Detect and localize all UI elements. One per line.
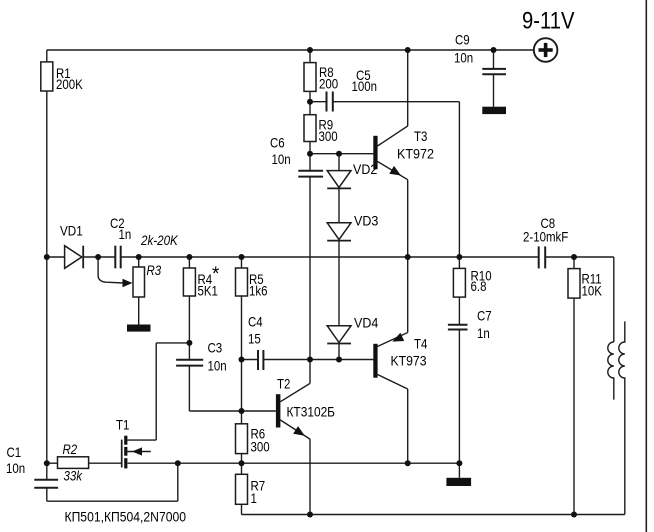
power terminal +9-11V: [522, 8, 575, 62]
node R5 top: [239, 254, 245, 260]
svg-text:10n: 10n: [6, 460, 25, 476]
svg-text:VD4: VD4: [354, 315, 378, 331]
capacitor C6: [270, 135, 323, 177]
diode VD1: [60, 223, 83, 269]
capacitor C8: [523, 215, 568, 268]
resistor R1: [41, 62, 84, 92]
resistor R8: [304, 63, 338, 92]
svg-text:33k: 33k: [64, 468, 83, 484]
ground under R3: [127, 325, 151, 332]
resistor R4: [183, 257, 220, 359]
svg-text:300: 300: [319, 128, 338, 144]
ground under C9: [482, 107, 506, 114]
svg-text:10n: 10n: [272, 151, 291, 167]
svg-text:2-10mkF: 2-10mkF: [523, 229, 568, 245]
svg-text:R3: R3: [147, 262, 162, 278]
svg-text:КП501,КП504,2N7000: КП501,КП504,2N7000: [65, 509, 187, 525]
svg-text:T2: T2: [277, 376, 291, 392]
node R4 top: [186, 254, 192, 260]
wire R8-R9-C6 column: [309, 50, 311, 170]
svg-text:10n: 10n: [454, 50, 473, 66]
wire mid rail left of VD1: [47, 256, 65, 258]
node bootstrap mid rail: [456, 254, 462, 260]
wire C4 to T4 base: [264, 359, 374, 361]
wire VD1 to C2: [83, 256, 115, 258]
svg-text:КТ3102Б: КТ3102Б: [287, 404, 336, 420]
diode VD2: [327, 161, 377, 188]
capacitor C2: [110, 215, 131, 268]
resistor R11: [568, 257, 602, 515]
svg-text:1k6: 1k6: [249, 283, 268, 299]
wire mid rail: [121, 256, 538, 258]
capacitor C5: [310, 67, 377, 112]
wire C6 bottom long lead: [309, 178, 311, 360]
resistor R7: [236, 463, 266, 514]
resistor R6: [236, 411, 270, 463]
wire VD3-VD4: [338, 241, 340, 326]
svg-text:1n: 1n: [119, 226, 132, 242]
wire T3 base: [310, 153, 373, 155]
node C1-R2: [44, 460, 50, 466]
label 2k-20K: [140, 232, 178, 248]
transistor T3: [373, 50, 434, 257]
transistor T4: [373, 257, 427, 463]
node R6 top: [239, 408, 245, 414]
ground under C7 node: [446, 478, 471, 486]
node T1 source: [175, 460, 181, 466]
resistor R10: [453, 268, 491, 298]
svg-text:9-11V: 9-11V: [522, 8, 575, 35]
capacitor C3: [176, 340, 227, 374]
node T2 emitter ground rail: [307, 512, 313, 518]
node R5-C4: [239, 357, 245, 363]
wire top rail: [47, 49, 534, 51]
capacitor C1: [6, 444, 58, 501]
node C8-R11: [571, 254, 577, 260]
svg-text:300: 300: [251, 439, 270, 455]
svg-text:1: 1: [251, 490, 258, 506]
wire VD2-VD3: [338, 188, 340, 222]
node C2-R3: [136, 254, 142, 260]
svg-text:VD3: VD3: [354, 213, 378, 229]
node mid rail left: [44, 254, 50, 260]
inductor L secondary winding: [619, 321, 625, 514]
svg-text:T4: T4: [414, 336, 428, 352]
resistor R9: [304, 115, 338, 144]
resistor R5: [236, 257, 268, 411]
node emitters mid rail: [405, 254, 411, 260]
wire C8 to coil: [546, 257, 614, 342]
node T4 collector rail: [405, 460, 411, 466]
svg-text:KT973: KT973: [391, 353, 427, 369]
svg-text:10K: 10K: [582, 283, 603, 299]
svg-text:15: 15: [248, 331, 261, 347]
inductor L primary winding: [608, 342, 614, 400]
svg-text:C3: C3: [208, 340, 223, 356]
node top rail T3 collector: [405, 47, 411, 53]
svg-text:100n: 100n: [352, 78, 378, 94]
potentiometer R3: [98, 257, 161, 325]
node top rail C9: [491, 47, 497, 53]
svg-text:6.8: 6.8: [471, 278, 487, 294]
resistor R2: [58, 441, 89, 484]
label transistor types: [65, 509, 187, 525]
svg-text:C6: C6: [270, 135, 285, 151]
node R8-R9 C5 tap: [307, 99, 313, 105]
svg-text:10n: 10n: [208, 358, 227, 374]
svg-text:VD1: VD1: [60, 223, 83, 239]
svg-text:C9: C9: [455, 32, 470, 48]
node VD1-C2: [95, 254, 101, 260]
wire C1 bottom loop: [47, 463, 178, 501]
border frame right edge: [645, 0, 647, 532]
svg-text:C1: C1: [7, 444, 22, 460]
svg-text:200: 200: [319, 76, 338, 92]
wire diode chain column top: [338, 154, 340, 171]
node top rail R8: [307, 47, 313, 53]
svg-text:T3: T3: [414, 128, 428, 144]
svg-text:R2: R2: [63, 441, 78, 457]
wire VD4 bottom: [338, 344, 340, 360]
svg-text:200K: 200K: [56, 76, 83, 92]
capacitor C4: [242, 314, 264, 371]
svg-text:1n: 1n: [477, 325, 490, 341]
node C6 bottom: [307, 357, 313, 363]
capacitor C7: [448, 308, 492, 478]
diode VD3: [327, 213, 378, 241]
svg-text:VD2: VD2: [353, 161, 377, 177]
wire left rail: [46, 50, 48, 463]
node VD4 bottom: [336, 357, 342, 363]
node R9 bottom: [307, 151, 313, 157]
svg-text:KT972: KT972: [397, 146, 434, 162]
svg-text:5K1: 5K1: [198, 283, 219, 299]
svg-text:2k-20K: 2k-20K: [140, 232, 178, 248]
node C7 ground: [456, 460, 462, 466]
node VD2 top: [336, 151, 342, 157]
svg-text:T1: T1: [116, 417, 130, 433]
node R6-R7: [239, 460, 245, 466]
wire ground rail bottom: [242, 514, 625, 516]
wire C5 to bootstrap column: [333, 102, 459, 325]
svg-text:C7: C7: [477, 308, 492, 324]
wire C3 bottom to T2 base: [189, 367, 276, 412]
diode VD4: [327, 315, 378, 344]
node R4-C3 T1 drain: [186, 340, 192, 346]
svg-text:C4: C4: [248, 314, 263, 330]
node R11 ground rail: [571, 512, 577, 518]
transistor T1 MOSFET: [116, 343, 189, 469]
transistor T2: [276, 360, 335, 515]
capacitor C9: [454, 32, 506, 107]
wire source rail y463: [47, 462, 460, 464]
